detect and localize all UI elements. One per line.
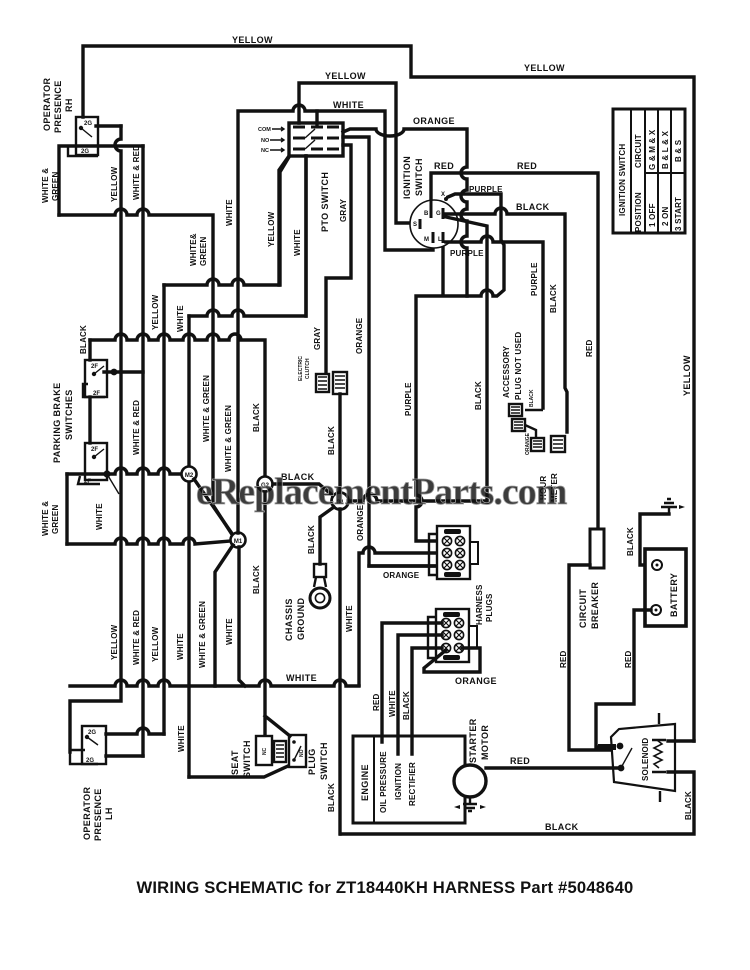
wire orange loop plug2	[424, 648, 480, 672]
battery	[645, 549, 686, 626]
svg-text:BLACK: BLACK	[684, 791, 693, 820]
svg-text:2 ON: 2 ON	[661, 207, 670, 226]
ignition switch circle	[410, 192, 458, 248]
plug switch	[289, 735, 306, 767]
svg-text:PURPLE: PURPLE	[450, 249, 484, 258]
svg-text:NC: NC	[262, 747, 268, 755]
wire PB1 to junction	[104, 370, 143, 373]
svg-text:CHASSIS: CHASSIS	[284, 598, 294, 641]
node M2	[182, 467, 197, 482]
wire purple X	[416, 194, 504, 541]
bus black y340	[90, 334, 265, 476]
svg-text:ACCESSORY: ACCESSORY	[502, 345, 511, 398]
svg-text:WHITE: WHITE	[177, 725, 186, 752]
svg-text:NO: NO	[299, 749, 305, 757]
svg-text:WHITE & RED: WHITE & RED	[132, 610, 141, 665]
svg-text:SWITCH: SWITCH	[414, 158, 424, 196]
svg-text:GREEN: GREEN	[51, 172, 60, 201]
white bus y686	[70, 680, 359, 686]
svg-text:OPERATOR: OPERATOR	[82, 787, 92, 840]
svg-text:WHITE: WHITE	[225, 199, 234, 226]
svg-text:BLACK: BLACK	[474, 381, 483, 410]
svg-text:WHITE: WHITE	[176, 305, 185, 332]
bus to M2 y474	[67, 468, 181, 474]
svg-text:ORANGE: ORANGE	[383, 571, 420, 580]
svg-text:BLACK: BLACK	[307, 525, 316, 554]
svg-text:2F: 2F	[93, 391, 100, 397]
svg-text:PLUG NOT USED: PLUG NOT USED	[514, 332, 523, 400]
svg-text:BREAKER: BREAKER	[590, 582, 600, 629]
battery ground symbol	[661, 499, 685, 514]
svg-text:G: G	[436, 211, 441, 217]
bus yellow y285	[164, 157, 289, 285]
svg-text:CLUTCH: CLUTCH	[305, 358, 311, 379]
svg-text:RED: RED	[434, 161, 454, 171]
svg-text:WHITE: WHITE	[293, 229, 302, 256]
svg-text:NC: NC	[261, 148, 269, 154]
svg-text:WIRING SCHEMATIC for ZT18440KH: WIRING SCHEMATIC for ZT18440KH HARNESS P…	[137, 878, 634, 897]
seat switch	[256, 736, 286, 765]
svg-text:ORANGE: ORANGE	[413, 116, 455, 126]
wire black G	[446, 208, 567, 432]
svg-text:GREEN: GREEN	[199, 237, 208, 266]
wire M2 to M1 diagonal	[194, 479, 233, 535]
svg-text:BLACK: BLACK	[327, 783, 336, 812]
svg-text:2G: 2G	[88, 730, 96, 736]
circuit breaker	[590, 529, 604, 568]
svg-text:SWITCH: SWITCH	[242, 740, 252, 778]
svg-text:ENGINE: ENGINE	[360, 764, 370, 801]
wire purple L	[446, 236, 543, 408]
svg-text:IGNITION: IGNITION	[394, 763, 403, 800]
wire black G branch x487	[446, 217, 487, 502]
wire white x189 down to M2	[187, 316, 190, 777]
svg-text:YELLOW: YELLOW	[151, 626, 160, 662]
svg-text:L: L	[438, 237, 442, 243]
svg-text:WHITE: WHITE	[286, 673, 317, 683]
wire yellow x164 down	[162, 285, 165, 734]
harness plug 2	[428, 609, 477, 662]
wire red starter to solenoid	[486, 766, 618, 769]
svg-text:2F: 2F	[91, 364, 98, 370]
svg-text:RED: RED	[517, 161, 537, 171]
harness plug 1	[429, 526, 478, 579]
wire yellow PTO bottom x279	[279, 156, 289, 285]
svg-text:PURPLE: PURPLE	[404, 382, 413, 416]
wire orange y129 PTO to ignition	[343, 129, 467, 296]
svg-text:WHITE & RED: WHITE & RED	[132, 145, 141, 200]
svg-text:RED: RED	[585, 339, 594, 357]
svg-text:YELLOW: YELLOW	[325, 71, 366, 81]
wire yellow y83 PTO to ignition	[299, 83, 420, 223]
svg-text:ORANGE: ORANGE	[455, 676, 497, 686]
svg-text:COM: COM	[258, 127, 271, 133]
svg-text:BLACK: BLACK	[626, 527, 635, 556]
svg-text:BLACK: BLACK	[545, 822, 579, 832]
wire white x189 to seat switch	[189, 766, 288, 777]
parking brake switch 2	[78, 443, 119, 494]
wire yellow to solenoid coil	[668, 739, 694, 742]
svg-text:PLUG: PLUG	[307, 748, 317, 775]
svg-text:RED: RED	[510, 756, 530, 766]
svg-text:POSITION: POSITION	[634, 192, 643, 232]
svg-text:RED: RED	[559, 650, 568, 668]
svg-text:NO: NO	[261, 138, 270, 144]
svg-text:PURPLE: PURPLE	[469, 185, 503, 194]
svg-text:PLUGS: PLUGS	[485, 593, 494, 622]
svg-text:YELLOW: YELLOW	[682, 355, 692, 396]
svg-text:SWITCHES: SWITCHES	[64, 389, 74, 440]
ignition switch table	[613, 109, 685, 233]
svg-text:YELLOW: YELLOW	[267, 211, 276, 247]
wire yellow top bus	[83, 46, 694, 741]
wire LH top to yellow	[106, 728, 164, 734]
svg-text:PARKING BRAKE: PARKING BRAKE	[52, 382, 62, 463]
svg-text:YELLOW: YELLOW	[110, 624, 119, 660]
electric clutch	[316, 372, 347, 394]
svg-text:HARNESS: HARNESS	[475, 584, 484, 625]
wire red breaker to solenoid	[569, 565, 613, 750]
wire clutch black to G1	[338, 394, 341, 493]
svg-text:2G: 2G	[81, 149, 89, 155]
svg-text:BLACK: BLACK	[252, 565, 261, 594]
accessory plug connector	[509, 389, 543, 455]
svg-text:S: S	[413, 222, 417, 228]
svg-text:OPERATOR: OPERATOR	[42, 78, 52, 131]
wire black x261 seat riser	[265, 492, 290, 736]
wire black G1 down to bottom bus	[338, 509, 341, 834]
svg-text:WHITE: WHITE	[225, 618, 234, 645]
svg-text:WHITE & RED: WHITE & RED	[132, 400, 141, 455]
svg-text:RECTIFIER: RECTIFIER	[408, 762, 417, 806]
svg-text:WHITE&: WHITE&	[189, 233, 198, 266]
bus E y544	[67, 538, 231, 544]
svg-text:IGNITION: IGNITION	[402, 156, 412, 199]
svg-text:RH: RH	[64, 98, 74, 112]
wire white engine to plug2	[398, 635, 442, 754]
svg-text:2F: 2F	[91, 447, 98, 453]
wire white x317 stem	[315, 111, 318, 124]
svg-text:WHITE: WHITE	[388, 690, 397, 717]
wire black engine to plug2	[412, 648, 442, 754]
svg-text:1 OFF: 1 OFF	[648, 203, 657, 227]
svg-text:ELECTRIC: ELECTRIC	[298, 356, 304, 381]
svg-text:PURPLE: PURPLE	[530, 262, 539, 296]
white & green box RH (left loop)	[59, 146, 143, 215]
svg-text:WHITE: WHITE	[176, 633, 185, 660]
wire PB1 bottom to PB2 top	[88, 397, 91, 443]
wire G1 to chassis ground	[320, 507, 334, 564]
svg-text:STARTER: STARTER	[468, 718, 478, 763]
svg-text:IGNITION SWITCH: IGNITION SWITCH	[618, 144, 627, 216]
parking brake switch 1	[83, 360, 107, 397]
operator presence switch RH	[68, 117, 98, 156]
svg-text:YELLOW: YELLOW	[232, 35, 273, 45]
svg-text:WHITE: WHITE	[345, 605, 354, 632]
svg-text:SEAT: SEAT	[230, 750, 240, 775]
wire yellow vertical x121 (RH to LH)	[70, 126, 121, 752]
svg-text:GREEN: GREEN	[51, 505, 60, 534]
svg-text:OIL PRESSURE: OIL PRESSURE	[379, 751, 388, 813]
wire LH bottom to white&red	[106, 754, 143, 757]
svg-text:BLACK: BLACK	[402, 691, 411, 720]
svg-text:MOTOR: MOTOR	[480, 725, 490, 760]
node G1	[332, 493, 349, 510]
wire orange x369	[343, 137, 441, 566]
svg-text:SWITCH: SWITCH	[319, 742, 329, 780]
node G2	[258, 477, 273, 492]
svg-text:M: M	[424, 237, 429, 243]
bus white&green y215	[59, 209, 233, 536]
svg-text:BATTERY: BATTERY	[669, 573, 679, 617]
svg-text:WHITE: WHITE	[95, 503, 104, 530]
starter motor	[454, 765, 486, 797]
svg-text:CIRCUIT: CIRCUIT	[634, 134, 643, 168]
wire solenoid coil to black bus	[341, 772, 694, 834]
svg-text:YELLOW: YELLOW	[110, 166, 119, 202]
node M1	[231, 533, 246, 548]
svg-text:eReplacementParts.com: eReplacementParts.com	[196, 471, 567, 513]
wire white y111	[238, 105, 433, 533]
wire battery red to solenoid	[596, 610, 651, 747]
svg-text:WHITE &: WHITE &	[41, 168, 50, 203]
white & green box lower left	[65, 474, 68, 544]
svg-text:G & M & X: G & M & X	[648, 129, 657, 170]
svg-text:BLACK: BLACK	[529, 389, 535, 407]
svg-text:M1: M1	[234, 539, 243, 545]
svg-text:LH: LH	[104, 807, 114, 820]
svg-text:BLACK: BLACK	[327, 426, 336, 455]
svg-text:3 START: 3 START	[674, 197, 683, 231]
svg-text:SOLENOID: SOLENOID	[641, 738, 650, 781]
svg-text:2G: 2G	[86, 758, 94, 764]
svg-text:PRESENCE: PRESENCE	[93, 788, 103, 841]
svg-text:GROUND: GROUND	[296, 598, 306, 640]
svg-text:BLACK: BLACK	[516, 202, 550, 212]
svg-text:BLACK: BLACK	[549, 284, 558, 313]
bus white y316	[189, 156, 306, 316]
svg-text:B & S: B & S	[674, 139, 683, 162]
wire G2 to G1 black	[273, 484, 332, 495]
svg-text:WHITE & GREEN: WHITE & GREEN	[224, 405, 233, 472]
wire gray x351	[326, 145, 351, 372]
svg-text:RED: RED	[624, 650, 633, 668]
wire G1 black to harness plug	[348, 494, 487, 501]
svg-text:B & L & X: B & L & X	[661, 130, 670, 169]
svg-text:WHITE &: WHITE &	[41, 501, 50, 536]
wire M1 diag to white&green x215	[215, 545, 233, 686]
wire black x90 to PB1	[88, 340, 91, 360]
wire white plug1 pin2	[359, 547, 442, 685]
svg-text:YELLOW: YELLOW	[524, 63, 565, 73]
wire red engine to plug2	[382, 623, 442, 742]
svg-text:PRESENCE: PRESENCE	[53, 80, 63, 133]
svg-text:PTO SWITCH: PTO SWITCH	[320, 172, 330, 232]
chassis ground ring terminal	[310, 564, 330, 608]
svg-text:GRAY: GRAY	[339, 198, 348, 222]
svg-text:ORANGE: ORANGE	[355, 317, 364, 354]
svg-text:2F: 2F	[84, 479, 91, 485]
wire battery black to ground	[640, 514, 669, 565]
wire white x240 M1 down	[239, 547, 245, 686]
svg-text:BLACK: BLACK	[79, 325, 88, 354]
PTO switch box	[289, 123, 343, 156]
svg-text:WHITE & GREEN: WHITE & GREEN	[202, 375, 211, 442]
wire white PTO bottom x306	[304, 156, 307, 316]
starter ground	[454, 797, 486, 811]
svg-text:WHITE: WHITE	[333, 100, 364, 110]
wire RH switch to yellow vertical	[96, 124, 121, 127]
svg-text:RED: RED	[372, 693, 381, 711]
svg-text:WHITE & GREEN: WHITE & GREEN	[198, 601, 207, 668]
wire orange into plug1 pin3	[369, 564, 442, 567]
svg-text:BLACK: BLACK	[252, 403, 261, 432]
wire red B to breaker	[431, 173, 598, 529]
svg-text:GRAY: GRAY	[313, 326, 322, 350]
wire white&red vertical x143	[141, 146, 144, 756]
solenoid	[598, 713, 675, 802]
operator presence LH switch	[70, 726, 106, 764]
engine box	[353, 736, 465, 823]
hour meter connectors	[531, 436, 565, 452]
svg-text:2G: 2G	[84, 121, 92, 127]
svg-text:YELLOW: YELLOW	[151, 294, 160, 330]
svg-text:CIRCUIT: CIRCUIT	[578, 589, 588, 628]
svg-text:X: X	[441, 192, 445, 198]
svg-text:B: B	[424, 211, 429, 217]
